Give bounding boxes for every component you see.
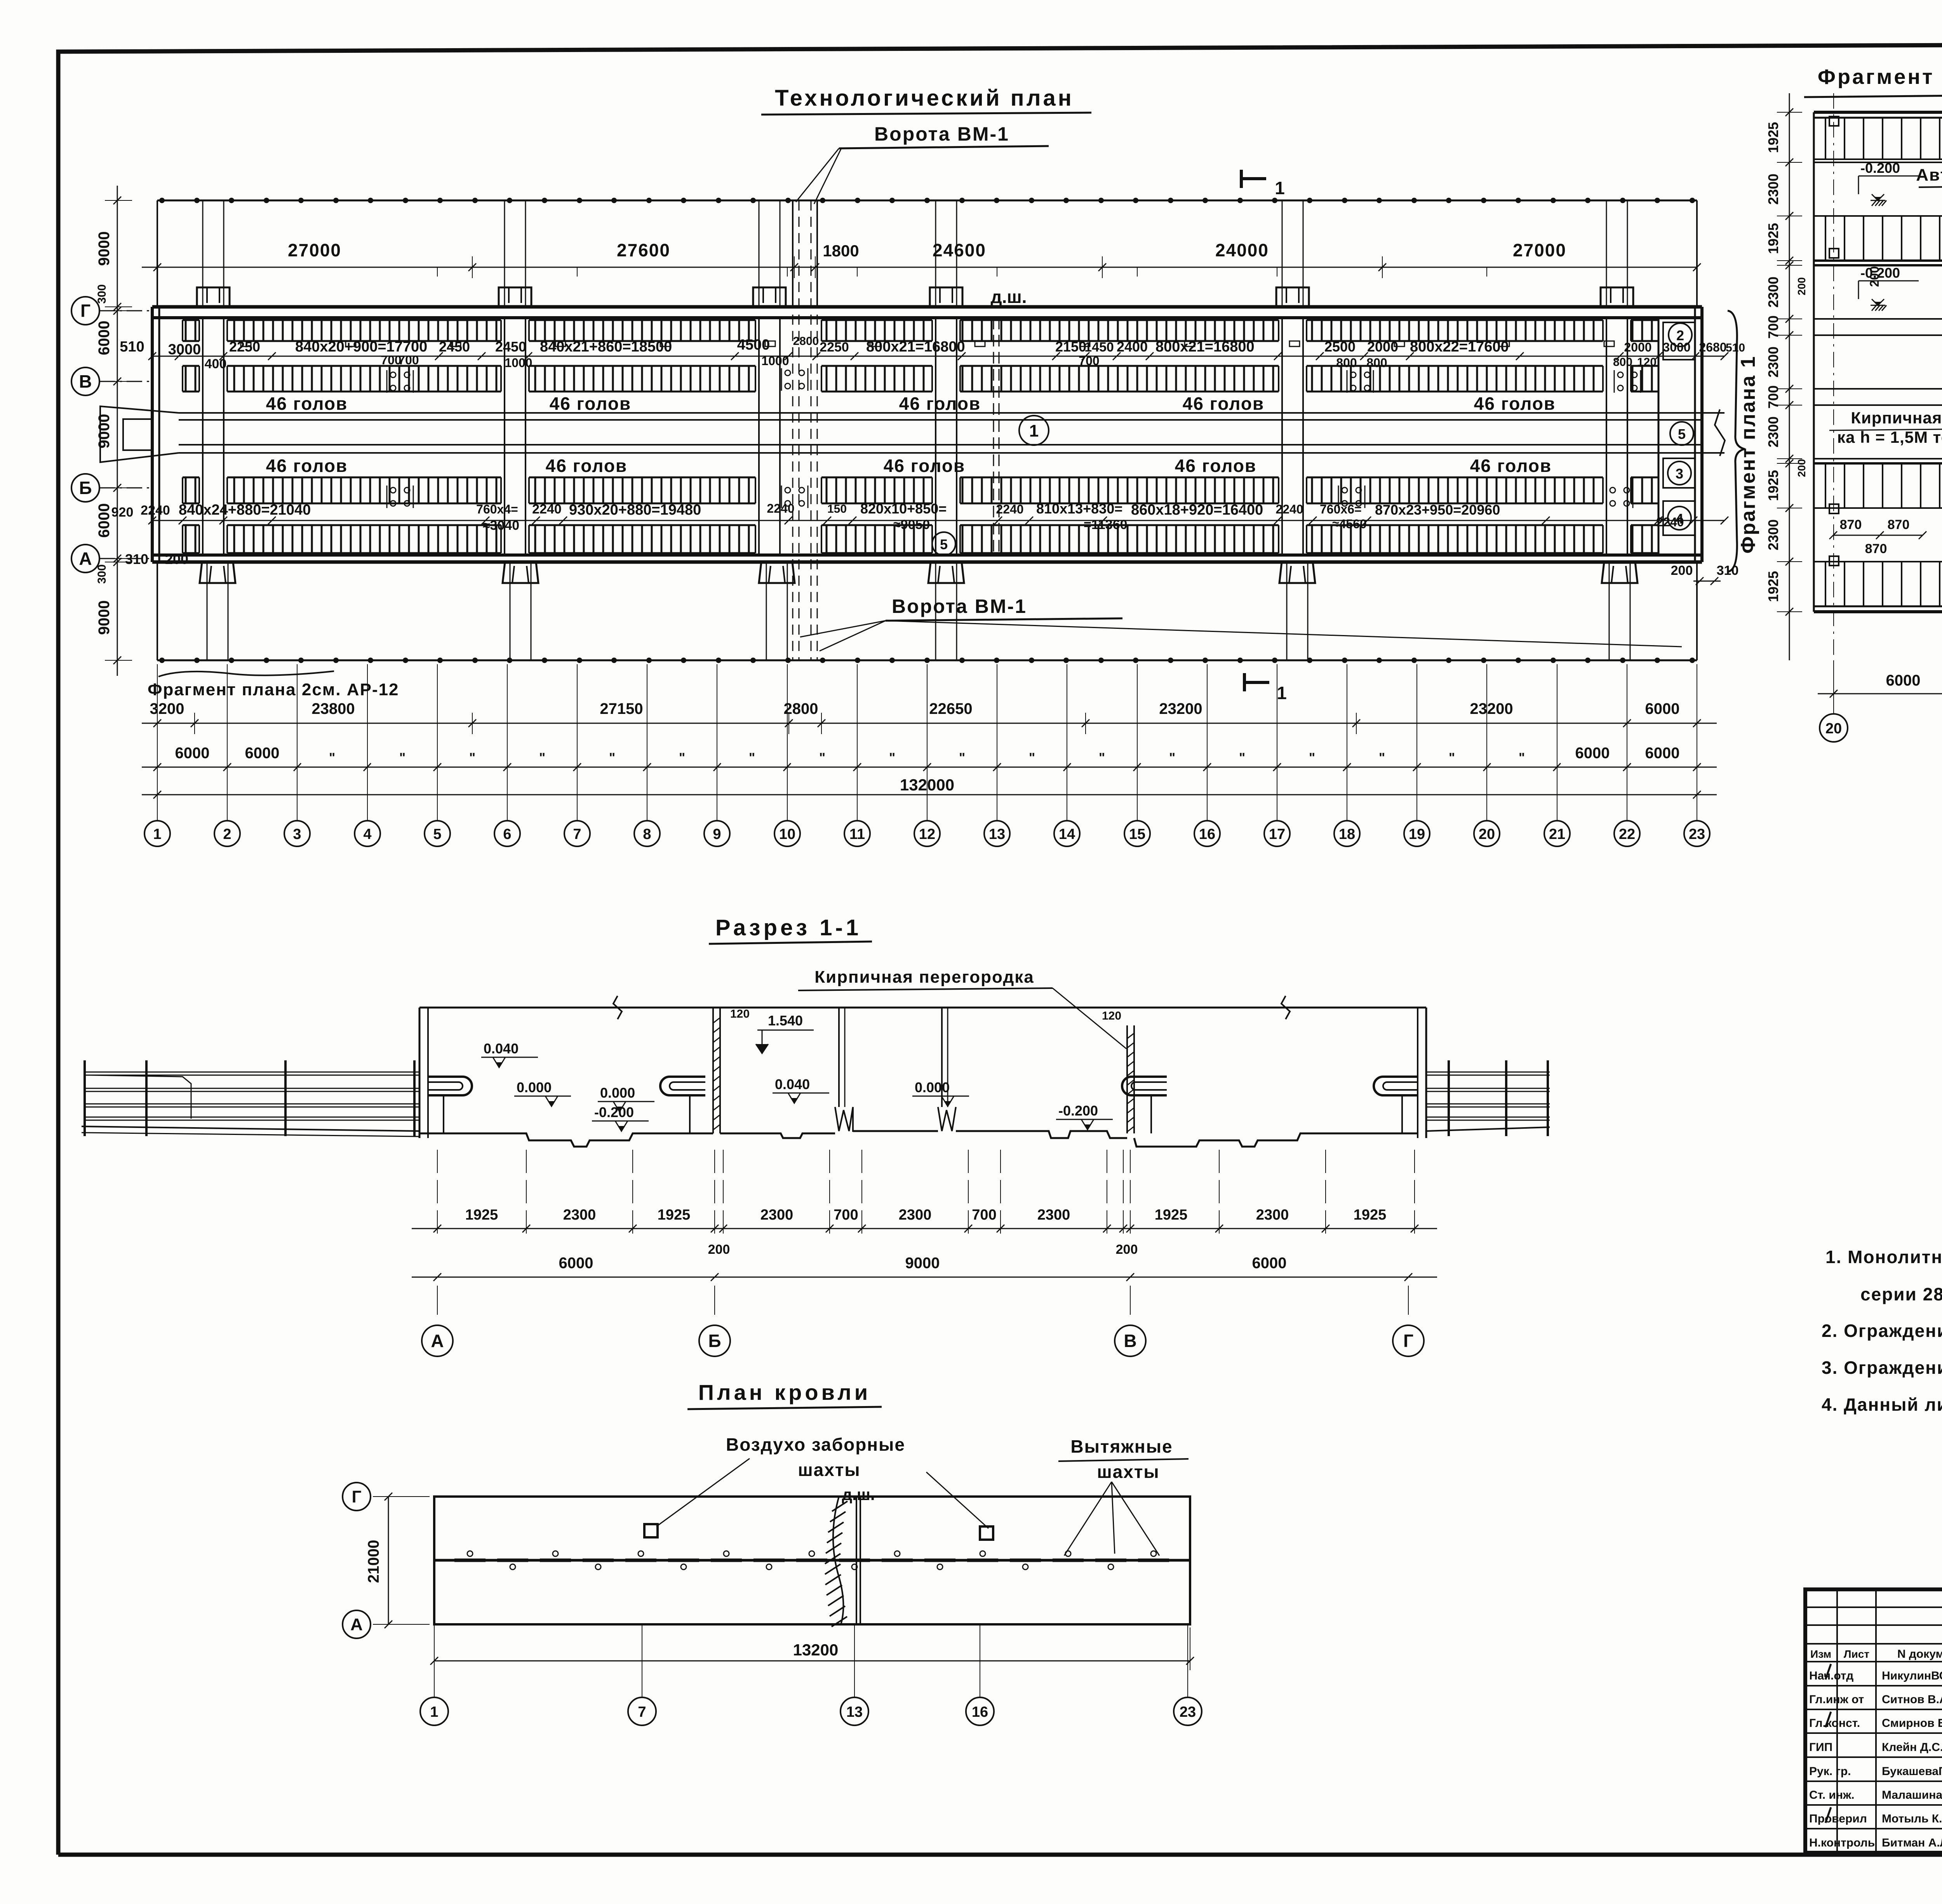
fragment stall band 3 [1814, 459, 1942, 513]
svg-text:22: 22 [1619, 826, 1635, 842]
bottom dim row: fragment spans [142, 700, 1717, 734]
svg-text:6000: 6000 [175, 745, 210, 762]
svg-text:": " [1239, 750, 1245, 765]
svg-text:800x22=17600: 800x22=17600 [1410, 339, 1509, 355]
svg-text:930x20+880=19480: 930x20+880=19480 [569, 502, 701, 518]
svg-text:БукашеваГ.Я.: БукашеваГ.Я. [1882, 1765, 1942, 1778]
room tag 5 bottom tambour [932, 532, 955, 555]
svg-text:27600: 27600 [617, 240, 670, 260]
svg-text:23800: 23800 [311, 700, 355, 717]
top dimension chain 27000/27600/1800/24600/24000/27000 [142, 206, 1701, 278]
roof grid bubbles [420, 1624, 1202, 1725]
svg-text:1800: 1800 [823, 242, 859, 260]
svg-text:НикулинВС: НикулинВС [1882, 1669, 1942, 1682]
svg-text:13200: 13200 [793, 1641, 839, 1659]
svg-text:16: 16 [972, 1704, 988, 1720]
svg-text:": " [1169, 750, 1175, 765]
section floor with pits [419, 1107, 1418, 1147]
title block signatures [1825, 1662, 1942, 1842]
svg-text:700: 700 [1765, 385, 1781, 409]
left vertical dim chain [96, 186, 1738, 676]
roof left dim 21000 [365, 1493, 430, 1628]
svg-text:46 голов: 46 голов [1183, 393, 1264, 414]
room tag 2 [1669, 323, 1692, 346]
svg-text:700: 700 [1765, 315, 1781, 339]
svg-text:1: 1 [1029, 421, 1039, 440]
svg-text:1: 1 [1277, 683, 1287, 703]
svg-text:200: 200 [1116, 1242, 1138, 1257]
svg-text:4500: 4500 [737, 337, 770, 353]
feeder band 1 (along axis Г) [183, 320, 1658, 341]
svg-text:9000: 9000 [96, 414, 113, 449]
svg-text:22650: 22650 [929, 700, 972, 717]
svg-text:46 голов: 46 голов [266, 393, 348, 414]
svg-text:200: 200 [708, 1242, 730, 1257]
svg-text:12: 12 [919, 826, 935, 842]
gate BM-1 joint (dashed through bay 10-11) [793, 200, 817, 660]
svg-text:2400: 2400 [1117, 339, 1148, 355]
svg-text:510: 510 [1726, 341, 1745, 354]
section inner posts and feed troughs [835, 1008, 956, 1131]
grid bubbles 1..23 [144, 795, 1710, 846]
svg-text:1000: 1000 [761, 354, 789, 368]
svg-text:310: 310 [125, 551, 148, 567]
svg-text:800x21=16800: 800x21=16800 [1155, 339, 1255, 355]
yard partition fences bottom [207, 562, 208, 660]
svg-text:3000: 3000 [168, 341, 201, 358]
svg-text:-0.200: -0.200 [1860, 160, 1900, 176]
svg-text:23: 23 [1180, 1704, 1196, 1720]
axis bubbles left Г В Б А [71, 297, 152, 573]
section label brick partition [798, 968, 1126, 1049]
svg-text:1.540: 1.540 [768, 1013, 803, 1029]
section cut mark bottom [1244, 673, 1287, 703]
svg-text:Изм: Изм [1810, 1648, 1831, 1660]
svg-text:20: 20 [1479, 826, 1495, 842]
svg-text:6000: 6000 [1645, 700, 1680, 717]
svg-text:В: В [79, 371, 92, 392]
svg-text:Ворота ВМ-1: Ворота ВМ-1 [892, 595, 1027, 617]
svg-text:Вытяжные: Вытяжные [1070, 1436, 1173, 1457]
fragment stall band 1 [1814, 117, 1942, 162]
yard partition fences top [202, 200, 204, 307]
svg-text:1925: 1925 [1765, 470, 1781, 501]
feeder support tabs band1 [241, 341, 1614, 346]
svg-text:800x21=16800: 800x21=16800 [866, 339, 965, 355]
svg-text:21000: 21000 [365, 1540, 382, 1583]
svg-text:200: 200 [1867, 266, 1881, 287]
svg-text:=11360: =11360 [1084, 517, 1128, 532]
svg-text:1000: 1000 [505, 356, 532, 370]
fragment bottom dims + grid bubbles [1818, 645, 1942, 742]
room tag 5 [1670, 422, 1693, 445]
svg-text:Г: Г [352, 1487, 362, 1506]
svg-text:Гл.конст.: Гл.конст. [1809, 1717, 1860, 1730]
fragment plan title [1804, 65, 1942, 97]
svg-text:": " [959, 750, 965, 765]
svg-text:Б: Б [79, 478, 92, 498]
svg-text:2300: 2300 [1765, 277, 1781, 308]
brick partition label [1829, 409, 1942, 489]
svg-text:План кровли: План кровли [698, 1380, 871, 1405]
svg-text:200: 200 [1796, 459, 1808, 477]
label gates BM-1 top [796, 123, 1049, 204]
svg-text:200: 200 [1671, 563, 1693, 578]
svg-text:Ситнов В.А.: Ситнов В.А. [1882, 1693, 1942, 1706]
svg-text:2. Ограждения боксов см.: 2. Ограждения боксов см. ТЛ-3 [1822, 1321, 1942, 1341]
svg-text:1: 1 [153, 826, 161, 842]
svg-text:840x24+880=21040: 840x24+880=21040 [179, 502, 311, 518]
svg-text:0.000: 0.000 [517, 1079, 552, 1095]
svg-text:13: 13 [846, 1704, 863, 1720]
roof deformation joint [825, 1497, 860, 1627]
section title [709, 915, 872, 944]
svg-text:400: 400 [205, 357, 227, 371]
section partition at Б (brick, hatched) [713, 1008, 814, 1133]
svg-text:Фрагмент плана 2см. АР-12: Фрагмент плана 2см. АР-12 [148, 680, 399, 699]
svg-text:700: 700 [398, 353, 419, 367]
svg-text:0.040: 0.040 [775, 1076, 810, 1092]
dim string row 2 (lower feed front) [111, 501, 1728, 533]
svg-text:": " [1449, 750, 1455, 765]
svg-text:2250: 2250 [229, 339, 260, 355]
bottom yard fence with posts [157, 658, 1697, 663]
feeder band 2 (north feed front) [183, 366, 1658, 392]
svg-text:2240: 2240 [1276, 502, 1303, 516]
svg-text:1925: 1925 [1765, 122, 1781, 153]
svg-text:Технологический план: Технологический план [775, 85, 1074, 111]
svg-text:2800: 2800 [784, 700, 818, 717]
tambour projections on bottom wall [200, 562, 235, 583]
svg-text:6000: 6000 [96, 503, 113, 538]
svg-text:9000: 9000 [96, 600, 113, 635]
svg-text:46 голов: 46 голов [546, 456, 627, 476]
svg-text:760x4=: 760x4= [476, 502, 518, 516]
svg-text:": " [329, 750, 335, 765]
svg-text:860x18+920=16400: 860x18+920=16400 [1131, 502, 1263, 518]
svg-text:": " [1029, 750, 1035, 765]
svg-text:Г: Г [1403, 1331, 1413, 1351]
svg-text:870x23+950=20960: 870x23+950=20960 [1375, 502, 1500, 518]
svg-text:3200: 3200 [150, 700, 184, 717]
svg-text:9000: 9000 [905, 1255, 940, 1272]
svg-text:": " [399, 750, 405, 765]
svg-text:шахты: шахты [1097, 1462, 1159, 1482]
feeder band 4 (along axis А) [183, 525, 1658, 553]
svg-text:Смирнов Б.Н: Смирнов Б.Н [1882, 1717, 1942, 1730]
svg-text:27000: 27000 [288, 240, 341, 260]
svg-text:840x20+900=17700: 840x20+900=17700 [295, 339, 427, 355]
svg-text:3: 3 [293, 826, 301, 842]
svg-text:1: 1 [430, 1704, 438, 1720]
svg-text:18: 18 [1339, 826, 1355, 842]
svg-text:46 голов: 46 голов [550, 393, 631, 414]
svg-text:21: 21 [1549, 826, 1565, 842]
roof labels [656, 1434, 1189, 1556]
svg-text:3: 3 [1676, 466, 1683, 482]
central feed alley [100, 406, 1725, 462]
svg-text:13: 13 [989, 826, 1005, 842]
gate label bottom [800, 595, 1682, 651]
svg-text:Разрез 1-1: Разрез 1-1 [715, 915, 861, 940]
svg-text:6000: 6000 [1645, 745, 1680, 762]
svg-text:17: 17 [1269, 826, 1285, 842]
fragment stall band 4 [1814, 556, 1942, 606]
svg-text:Лист: Лист [1844, 1648, 1869, 1660]
feeder band 3 (south feed front) [183, 477, 1658, 503]
svg-text:10: 10 [779, 826, 795, 842]
svg-text:1925: 1925 [658, 1207, 691, 1223]
svg-text:2300: 2300 [1037, 1207, 1070, 1223]
section fences right [1426, 1060, 1550, 1136]
svg-text:2450: 2450 [439, 339, 470, 355]
fragment 2 note [148, 671, 399, 699]
svg-text:N документ: N документ [1897, 1648, 1942, 1660]
svg-text:2150: 2150 [1055, 339, 1086, 355]
svg-text:2450: 2450 [495, 339, 526, 355]
building outer walls [152, 307, 1702, 562]
svg-text:А: А [431, 1331, 444, 1351]
svg-text:7: 7 [638, 1704, 646, 1720]
svg-text:8: 8 [643, 826, 651, 842]
svg-text:Фрагмент плана 1: Фрагмент плана 1 [1737, 355, 1759, 554]
svg-text:": " [469, 750, 475, 765]
svg-text:20: 20 [1825, 721, 1842, 737]
svg-text:2680: 2680 [1699, 340, 1726, 354]
fragment inner dims [1829, 228, 1942, 565]
svg-text:Н.контроль: Н.контроль [1809, 1836, 1875, 1849]
fragment building walls [1814, 112, 1942, 612]
svg-text:1925: 1925 [1155, 1207, 1188, 1223]
svg-text:6: 6 [503, 826, 511, 842]
svg-text:Мотыль К.П: Мотыль К.П [1882, 1812, 1942, 1825]
svg-text:≈4560: ≈4560 [1332, 517, 1367, 531]
svg-text:2500: 2500 [1324, 339, 1356, 355]
svg-text:2300: 2300 [563, 1207, 596, 1223]
svg-text:700: 700 [972, 1207, 996, 1223]
section gate loops (horizontal pipe rails) [428, 1077, 472, 1133]
section partition at В (brick, hatched) [1102, 1009, 1134, 1133]
svg-text:Ворота ВМ-1: Ворота ВМ-1 [874, 123, 1009, 145]
autopoilki label [1916, 165, 1942, 241]
svg-text:132000: 132000 [900, 776, 954, 794]
svg-text:1925: 1925 [1765, 571, 1781, 602]
svg-text:0.040: 0.040 [484, 1041, 519, 1056]
svg-text:14: 14 [1059, 826, 1075, 842]
svg-text:1925: 1925 [1765, 223, 1781, 254]
svg-text:1925: 1925 [1354, 1207, 1387, 1223]
room tag 3 [1668, 461, 1691, 485]
svg-text:920: 920 [111, 505, 134, 520]
svg-text:": " [679, 750, 685, 765]
svg-text:Кирпичная перегород-: Кирпичная перегород- [1851, 409, 1942, 427]
svg-text:1: 1 [1275, 178, 1285, 198]
svg-text:300: 300 [96, 564, 108, 584]
svg-text:": " [1519, 750, 1525, 765]
svg-text:2240: 2240 [767, 501, 794, 515]
svg-text:5: 5 [433, 826, 441, 842]
svg-text:870: 870 [1865, 541, 1887, 556]
svg-text:ка h = 1,5М толщ. 120мм: ка h = 1,5М толщ. 120мм [1837, 428, 1942, 446]
svg-text:820x10+850=: 820x10+850= [860, 501, 947, 517]
svg-text:150: 150 [827, 503, 847, 515]
svg-text:1. Монолитные железобето: 1. Монолитные железобетонные кормушки пр… [1825, 1247, 1942, 1267]
svg-text:2300: 2300 [760, 1207, 794, 1223]
svg-text:Нач.отд: Нач.отд [1809, 1669, 1853, 1682]
svg-text:": " [889, 750, 895, 765]
svg-text:300: 300 [96, 284, 108, 304]
section level marks [481, 1041, 538, 1067]
svg-text:": " [539, 750, 545, 765]
section dim chain spans [412, 1255, 1437, 1315]
svg-text:46 голов: 46 голов [1175, 456, 1256, 476]
svg-text:Б: Б [708, 1331, 721, 1351]
svg-text:3. Ограждения выгульных: 3. Ограждения выгульных дворов смотреть … [1822, 1358, 1942, 1378]
svg-text:2: 2 [223, 826, 231, 842]
right end rooms of main plan [1658, 318, 1695, 535]
svg-text:Битман А.Л: Битман А.Л [1882, 1836, 1942, 1849]
svg-text:870: 870 [1840, 517, 1862, 532]
svg-text:46 голов: 46 голов [1470, 456, 1552, 476]
fragment feeder rows + alley [1814, 319, 1942, 405]
roof outline [434, 1497, 1190, 1624]
svg-text:2000: 2000 [1367, 339, 1398, 355]
svg-text:24000: 24000 [1215, 240, 1269, 260]
svg-text:7: 7 [573, 826, 581, 842]
svg-text:800: 800 [1613, 356, 1632, 369]
svg-text:МалашинаИ.Н.: МалашинаИ.Н. [1882, 1789, 1942, 1801]
svg-text:200: 200 [165, 551, 188, 567]
svg-text:2300: 2300 [1256, 1207, 1289, 1223]
svg-text:Фрагмент плана 1: Фрагмент плана 1 [1818, 65, 1942, 89]
svg-text:Воздухо заборные: Воздухо заборные [726, 1434, 905, 1455]
svg-text:6000: 6000 [1575, 745, 1610, 762]
top yard fence with posts [157, 198, 1697, 203]
svg-text:д.ш.: д.ш. [990, 287, 1027, 307]
svg-text:16: 16 [1199, 826, 1215, 842]
svg-text:0.000: 0.000 [915, 1079, 950, 1095]
svg-text:0.000: 0.000 [600, 1085, 635, 1101]
svg-text:4: 4 [1676, 511, 1683, 527]
section fences left [82, 1060, 419, 1136]
svg-text:6000: 6000 [1252, 1255, 1287, 1272]
room tag 4 [1668, 506, 1691, 530]
svg-text:": " [819, 750, 825, 765]
svg-text:6000: 6000 [1886, 672, 1921, 689]
band passage double-dot symbols [387, 370, 413, 393]
roof shafts squares [644, 1524, 658, 1537]
svg-text:800: 800 [1366, 356, 1387, 370]
svg-text:Г: Г [80, 301, 90, 321]
svg-text:": " [1099, 750, 1105, 765]
section dim chain small [412, 1150, 1437, 1257]
svg-text:120: 120 [730, 1008, 750, 1020]
svg-text:5: 5 [940, 536, 948, 552]
svg-text:200: 200 [1796, 277, 1808, 296]
svg-text:120: 120 [1102, 1009, 1121, 1022]
svg-text:шахты: шахты [798, 1460, 860, 1480]
svg-text:27000: 27000 [1513, 240, 1566, 260]
svg-text:2240: 2240 [532, 502, 562, 517]
svg-text:4. Данный лист смотреть: 4. Данный лист смотреть совместно с лист… [1822, 1394, 1942, 1415]
svg-text:9000: 9000 [96, 231, 113, 266]
svg-text:800: 800 [1336, 356, 1357, 370]
fragment grid dash lines [1833, 93, 1834, 676]
bottom dim row: 132000 total [142, 776, 1717, 804]
svg-text:15: 15 [1129, 826, 1145, 842]
svg-text:24600: 24600 [933, 240, 986, 260]
svg-text:2240: 2240 [141, 503, 170, 518]
svg-text:46 голов: 46 голов [266, 456, 348, 476]
svg-text:810x13+830=: 810x13+830= [1036, 501, 1122, 517]
section axis bubbles [422, 1325, 1424, 1356]
svg-text:27150: 27150 [600, 700, 643, 717]
svg-text:700: 700 [1079, 354, 1099, 368]
svg-text:120: 120 [1637, 356, 1657, 369]
roof ridge with vents [434, 1551, 1190, 1570]
roof axis bubbles [343, 1483, 371, 1511]
yard side fences [157, 200, 158, 307]
svg-text:А: А [350, 1615, 363, 1634]
svg-text:46 голов: 46 голов [884, 456, 965, 476]
svg-text:-0.200: -0.200 [1058, 1103, 1098, 1119]
svg-text:23200: 23200 [1470, 700, 1513, 717]
svg-text:5: 5 [1678, 426, 1686, 442]
svg-text:9: 9 [713, 826, 721, 842]
svg-text:2300: 2300 [1765, 519, 1781, 550]
svg-text:2300: 2300 [1765, 174, 1781, 205]
fragment level marks and texts [1858, 160, 1919, 206]
svg-text:6000: 6000 [559, 1255, 593, 1272]
svg-text:870: 870 [1888, 517, 1910, 532]
svg-text:": " [609, 750, 615, 765]
svg-text:2300: 2300 [1765, 346, 1781, 378]
svg-text:Гл.инж от: Гл.инж от [1809, 1693, 1864, 1706]
svg-text:А: А [79, 548, 92, 569]
svg-text:": " [1309, 750, 1315, 765]
svg-text:2300: 2300 [1765, 416, 1781, 447]
svg-text:": " [749, 750, 755, 765]
circled 1 room tag center [1019, 416, 1049, 445]
fragment stall band 2 [1814, 216, 1942, 265]
svg-text:Кирпичная перегородка: Кирпичная перегородка [814, 968, 1034, 987]
bottom dim row: 6000 bays [142, 745, 1717, 777]
svg-text:4: 4 [363, 826, 371, 842]
interior partitions (tambour walls) [203, 318, 224, 555]
deformation joint lines [994, 318, 999, 555]
tambour projections on top wall [197, 287, 230, 307]
svg-text:2300: 2300 [899, 1207, 932, 1223]
partition before right rooms [1658, 318, 1660, 555]
svg-text:23: 23 [1689, 826, 1705, 842]
svg-text:ГИП: ГИП [1809, 1741, 1832, 1754]
svg-text:2250: 2250 [820, 340, 849, 355]
notes list [1822, 1247, 1942, 1415]
svg-text:Проверил: Проверил [1809, 1812, 1867, 1825]
svg-text:6000: 6000 [96, 321, 113, 355]
svg-text:Рук. гр.: Рук. гр. [1809, 1765, 1851, 1778]
dim string row 1 (upper feed front) [120, 335, 1745, 371]
svg-text:11: 11 [849, 826, 865, 842]
fragment left dim chains [1765, 93, 1808, 660]
svg-text:≈9050: ≈9050 [893, 517, 930, 532]
svg-text:760x6=: 760x6= [1320, 502, 1362, 516]
section body outline [419, 996, 1426, 1138]
roof plan title [687, 1380, 882, 1409]
svg-text:700: 700 [834, 1207, 858, 1223]
svg-text:В: В [1124, 1331, 1136, 1351]
svg-text:Ст. инж.: Ст. инж. [1809, 1789, 1855, 1801]
